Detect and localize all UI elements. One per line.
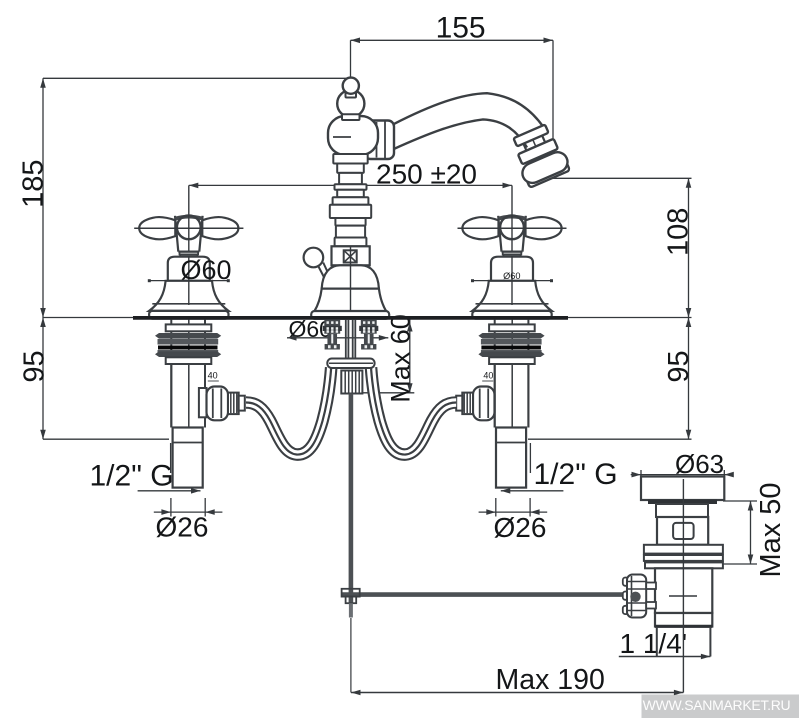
dimension 95 left xyxy=(42,318,44,440)
svg-text:155: 155 xyxy=(436,11,486,44)
handle hub circle xyxy=(500,215,524,239)
handle bonnet xyxy=(491,257,533,281)
svg-text:250 ±20: 250 ±20 xyxy=(376,158,477,189)
drain flange xyxy=(641,477,724,501)
drain neck xyxy=(656,504,708,517)
handle axis line xyxy=(458,227,567,229)
drain centerline xyxy=(682,479,684,693)
dimension diameter 26 left xyxy=(154,511,223,513)
svg-text:Ø26: Ø26 xyxy=(494,512,547,543)
handle hub circle xyxy=(177,215,201,239)
deck line thin extension xyxy=(43,317,692,319)
svg-text:1/2" G: 1/2" G xyxy=(534,458,618,491)
handle centerline xyxy=(188,185,190,305)
svg-text:108: 108 xyxy=(663,208,695,256)
handle hub housing xyxy=(498,216,526,252)
svg-text:Max 60: Max 60 xyxy=(386,314,416,403)
svg-text:95: 95 xyxy=(19,350,51,382)
handle top cap xyxy=(499,217,526,219)
handle left arm xyxy=(139,217,175,239)
drain knob tabs xyxy=(646,583,656,590)
svg-text:WWW.SANMARKET.RU: WWW.SANMARKET.RU xyxy=(643,697,791,713)
center mounting bracket xyxy=(327,359,374,369)
valve lower shank xyxy=(496,428,526,488)
faucet centerline xyxy=(350,76,352,311)
handle diameter 60 line xyxy=(149,280,228,282)
center threaded tail left xyxy=(324,320,340,334)
valve shank verticals xyxy=(170,320,172,428)
dimension diameter 26 right xyxy=(479,511,548,513)
valve top plate xyxy=(489,324,535,331)
svg-text:Ø60: Ø60 xyxy=(503,271,520,281)
deck thick line xyxy=(133,316,568,320)
faucet collar with cross-hatch box xyxy=(332,246,370,265)
svg-text:Ø60: Ø60 xyxy=(181,255,232,285)
valve lower shank xyxy=(173,428,203,488)
center manifold block xyxy=(341,371,362,394)
svg-text:185: 185 xyxy=(18,160,50,208)
rod cross fitting xyxy=(342,589,360,597)
valve washer stack xyxy=(478,333,544,339)
dimension 185 left xyxy=(43,77,351,79)
handle bonnet xyxy=(168,257,210,281)
center supply hose left xyxy=(246,368,331,455)
faucet bell skirt xyxy=(314,289,386,312)
center threaded tail right xyxy=(361,320,377,334)
svg-text:1/2" G: 1/2" G xyxy=(90,460,174,493)
center pipes xyxy=(345,320,347,359)
handle hub housing xyxy=(175,216,203,252)
dimension 108 right xyxy=(551,177,692,179)
svg-text:40: 40 xyxy=(208,371,218,381)
dimension 95 right xyxy=(688,318,690,440)
handle top cap xyxy=(175,217,202,219)
faucet spray head xyxy=(507,122,571,189)
handle stem bands xyxy=(503,252,522,255)
handle skirt xyxy=(149,281,228,311)
pop-up lever knob xyxy=(304,248,324,268)
valve side outlet xyxy=(501,388,503,417)
svg-text:Max 190: Max 190 xyxy=(496,664,605,696)
faucet base rim xyxy=(311,311,389,319)
dimension 155 top xyxy=(351,39,554,41)
handle base rim xyxy=(149,311,228,319)
rod extension line to Max 190 xyxy=(350,618,352,693)
handle stem bands xyxy=(180,252,199,255)
valve top plate xyxy=(166,324,212,331)
rod ball end xyxy=(630,592,640,602)
dimension Max 190 bottom xyxy=(351,692,683,694)
valve side outlet xyxy=(199,388,207,417)
faucet spout junction block xyxy=(365,121,395,160)
svg-text:1 1/4': 1 1/4' xyxy=(620,628,688,659)
svg-text:40: 40 xyxy=(483,371,493,381)
handle right arm xyxy=(202,217,238,239)
rod lower pin xyxy=(349,603,353,617)
handle base rim xyxy=(472,311,551,319)
handle diameter 60 line xyxy=(473,280,552,282)
horizontal linkage rod xyxy=(342,592,630,597)
drain nut rings xyxy=(644,545,723,554)
dimension Max 50 drain xyxy=(723,500,757,502)
drain tailpipe xyxy=(656,627,658,657)
watermark band xyxy=(642,695,799,718)
handle skirt xyxy=(472,281,551,311)
valve bottom plate xyxy=(166,357,212,364)
handle left arm xyxy=(462,217,498,239)
drain lever knob xyxy=(623,578,629,586)
dimension Max 60 xyxy=(409,318,411,393)
svg-text:Ø26: Ø26 xyxy=(156,512,209,543)
faucet ball and finial xyxy=(337,90,364,117)
svg-text:95: 95 xyxy=(663,350,695,382)
drain body with square detail xyxy=(657,517,708,545)
valve shank verticals xyxy=(494,320,496,428)
faucet bell dome xyxy=(322,265,379,288)
handle centerline xyxy=(511,185,513,305)
faucet spout tube xyxy=(394,93,547,131)
pop-up rod vertical xyxy=(349,394,354,604)
faucet body xyxy=(328,116,378,155)
drain lower band xyxy=(655,613,712,627)
valve washer stack xyxy=(155,333,221,339)
valve bottom plate xyxy=(489,357,535,364)
handle right arm xyxy=(526,217,562,239)
svg-text:Max 50: Max 50 xyxy=(755,482,787,577)
faucet neck rings xyxy=(333,154,367,164)
handle axis line xyxy=(134,227,243,229)
dimension 250 plus-minus 20 xyxy=(189,184,512,186)
drain lower body xyxy=(655,568,712,613)
